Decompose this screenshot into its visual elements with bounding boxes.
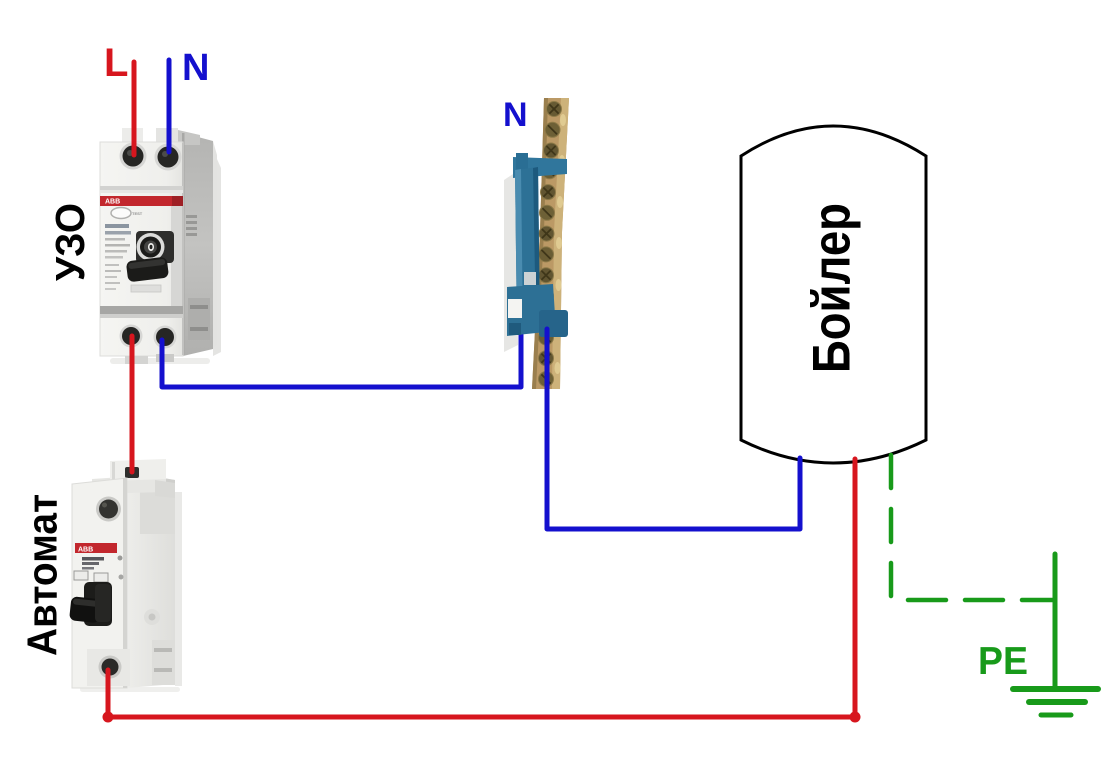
busbar screw slots — [542, 105, 558, 383]
busbar screws — [539, 102, 562, 387]
RCD red ABB band — [100, 196, 172, 206]
busbar holder small gray latch — [524, 272, 536, 285]
RCD label strip above bottom step — [131, 285, 161, 292]
RCD bottom feet — [125, 356, 148, 364]
busbar bottom connector piece — [539, 310, 568, 337]
busbar blue holder bottom foot — [507, 284, 556, 336]
RCD main front face — [100, 142, 183, 356]
wire N input (blue) — [167, 60, 172, 152]
boiler (Бойлер) — [741, 126, 926, 463]
breaker red ABB band — [75, 543, 117, 553]
svg-text:N: N — [503, 96, 528, 134]
breaker side top hook — [155, 480, 175, 498]
RCD bottom step shadow — [100, 306, 183, 314]
breaker top terminal slot (red wire entry) — [125, 467, 139, 478]
RCD photo shadow — [213, 150, 221, 356]
RCD side DIN clip area — [188, 298, 210, 340]
wire RCD to breaker (red phase) — [130, 336, 135, 472]
wire boiler to breaker (red phase return) — [108, 459, 855, 717]
RCD top mounting tabs — [122, 128, 143, 145]
breaker side round detail — [144, 609, 160, 625]
breaker main front face — [72, 478, 127, 688]
busbar photo shadow — [504, 172, 518, 352]
breaker side fin (right, DIN rail part) — [127, 472, 175, 688]
RCD tiny schematic marks lower-left — [105, 264, 119, 266]
wire L input (red) — [132, 62, 137, 155]
wire PE vertical solid (green) — [1053, 554, 1058, 687]
breaker side small dots — [118, 556, 123, 561]
RCD toggle housing and knob — [136, 231, 174, 263]
busbar screw side profiles on right edge — [555, 114, 567, 374]
RCD side vents — [186, 215, 197, 218]
wire PE dashed horizontal (green) — [908, 598, 1053, 603]
busbar blue holder top clip — [513, 157, 567, 178]
svg-text:ABB: ABB — [78, 547, 93, 554]
RCD groove between terminal block and mid face — [100, 186, 183, 190]
busbar blue holder main bar — [515, 167, 540, 334]
ground PE symbol — [1013, 689, 1098, 715]
svg-text:TEST: TEST — [132, 211, 143, 216]
wire RCD N to busbar (blue) — [162, 331, 521, 387]
RCD TEST button — [111, 208, 131, 219]
svg-text:L: L — [104, 41, 128, 85]
breaker bottom terminal — [99, 656, 122, 679]
wire PE dashed vertical (green) — [889, 455, 894, 597]
junction dot at boiler red corner — [850, 712, 861, 723]
breaker toggle (black) — [84, 582, 112, 626]
breaker rating label text — [82, 557, 104, 561]
svg-text:Бойлер: Бойлер — [803, 203, 862, 373]
svg-text:N: N — [182, 47, 209, 89]
circuit breaker Автомат Q1 — [69, 459, 182, 692]
svg-text:УЗО: УЗО — [47, 203, 93, 281]
breaker certification mark boxes — [74, 571, 88, 580]
breaker top front screw hole — [96, 497, 121, 522]
RCD top terminal N — [155, 144, 182, 171]
RCD top terminal L — [120, 143, 147, 170]
breaker photo shadow — [175, 492, 182, 686]
RCD УЗО device U1 — [100, 128, 221, 364]
RCD side face (right, perspective) — [183, 133, 213, 356]
svg-text:PE: PE — [978, 640, 1028, 683]
busbar brass strip — [532, 98, 569, 389]
neutral busbar N — [504, 98, 569, 389]
breaker top terminal block — [92, 474, 166, 494]
junction dot at breaker bottom corner — [103, 712, 114, 723]
RCD bottom terminal N — [154, 326, 177, 349]
RCD toggle handle — [126, 257, 169, 283]
breaker bottom terminal block — [87, 649, 130, 686]
RCD bottom terminal L — [120, 325, 143, 348]
RCD tiny label text lines — [105, 224, 129, 228]
svg-text:Автомат: Автомат — [19, 494, 66, 656]
wire busbar to boiler (blue neutral) — [547, 329, 800, 529]
breaker side DIN clip — [152, 640, 175, 685]
svg-text:ABB: ABB — [105, 199, 120, 206]
